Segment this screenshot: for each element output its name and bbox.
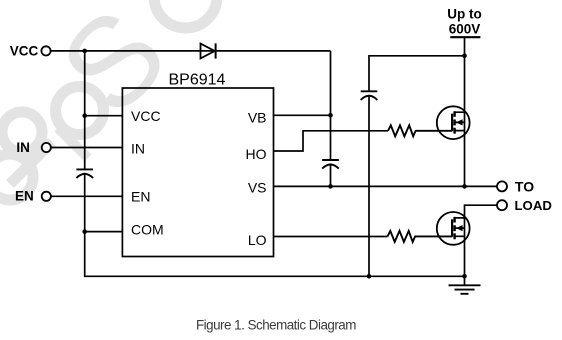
svg-text:VCC: VCC	[131, 108, 161, 124]
svg-text:600V: 600V	[449, 22, 481, 37]
svg-text:TO: TO	[515, 178, 534, 194]
svg-text:Figure 1. Schematic Diagram: Figure 1. Schematic Diagram	[196, 318, 356, 333]
svg-text:HO: HO	[246, 146, 267, 162]
svg-text:BP6914: BP6914	[169, 71, 226, 88]
svg-text:VB: VB	[248, 110, 267, 126]
svg-text:Up to: Up to	[447, 6, 482, 21]
svg-text:VCC: VCC	[10, 44, 39, 59]
svg-text:EN: EN	[131, 189, 150, 205]
svg-text:EN: EN	[15, 189, 34, 204]
svg-text:COM: COM	[131, 222, 164, 238]
svg-text:LOAD: LOAD	[515, 198, 552, 213]
svg-text:VS: VS	[248, 180, 267, 196]
svg-text:IN: IN	[131, 141, 145, 157]
svg-text:LO: LO	[248, 232, 267, 248]
svg-text:IN: IN	[16, 140, 30, 155]
